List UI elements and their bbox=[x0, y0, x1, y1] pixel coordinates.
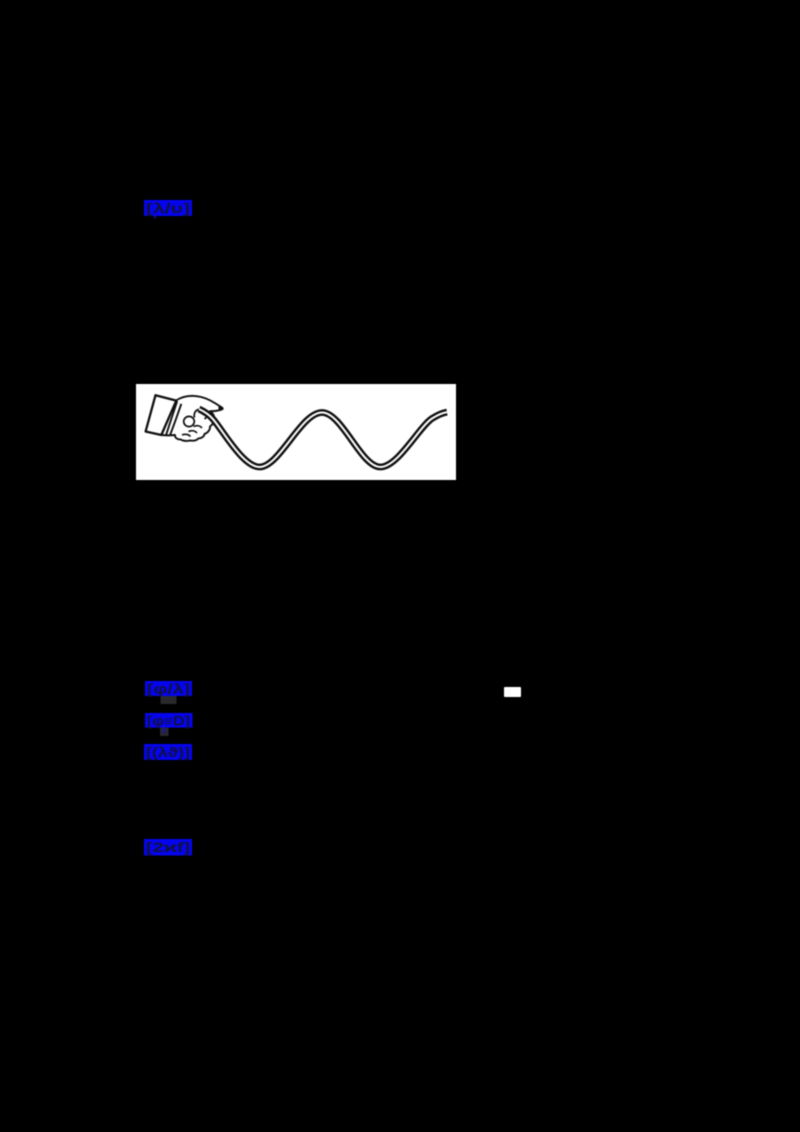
svg-text:[(λϑ)]: [(λϑ)] bbox=[146, 745, 190, 760]
svg-text:[φ≡D]: [φ≡D] bbox=[147, 714, 190, 729]
hand: finger crease arcs bbox=[182, 410, 221, 437]
hand: thumb (rope passes over it) bbox=[194, 409, 207, 419]
cloze highlight 2 bbox=[145, 681, 193, 705]
cloze highlight 4 bbox=[144, 744, 192, 760]
rope wave inner white line bbox=[199, 409, 447, 467]
figure white background bbox=[136, 384, 456, 480]
descender box bbox=[160, 696, 176, 704]
hand: shirt cuff bbox=[146, 395, 177, 435]
descender box bbox=[160, 728, 169, 736]
cloze highlight 5 bbox=[144, 839, 192, 856]
hand: palm/fist outline bbox=[162, 396, 223, 441]
svg-text:[φ/λ]: [φ/λ] bbox=[147, 682, 190, 697]
hand: knuckle circle bbox=[184, 416, 195, 426]
cloze highlight 1 (blue equation box top) bbox=[144, 200, 192, 219]
svg-text:[2ϰf]: [2ϰf] bbox=[146, 840, 190, 855]
white fraction bar / equation mark bbox=[504, 687, 521, 696]
hand: cuff band lines bbox=[166, 401, 181, 435]
hand: dark fingertip bbox=[218, 406, 222, 410]
figure: hand shaking rope producing transverse wave bbox=[136, 384, 456, 480]
svg-text:[λ/υ]: [λ/υ] bbox=[146, 200, 190, 216]
rope wave outer black line bbox=[199, 409, 447, 467]
cloze highlight 3 bbox=[145, 713, 193, 737]
